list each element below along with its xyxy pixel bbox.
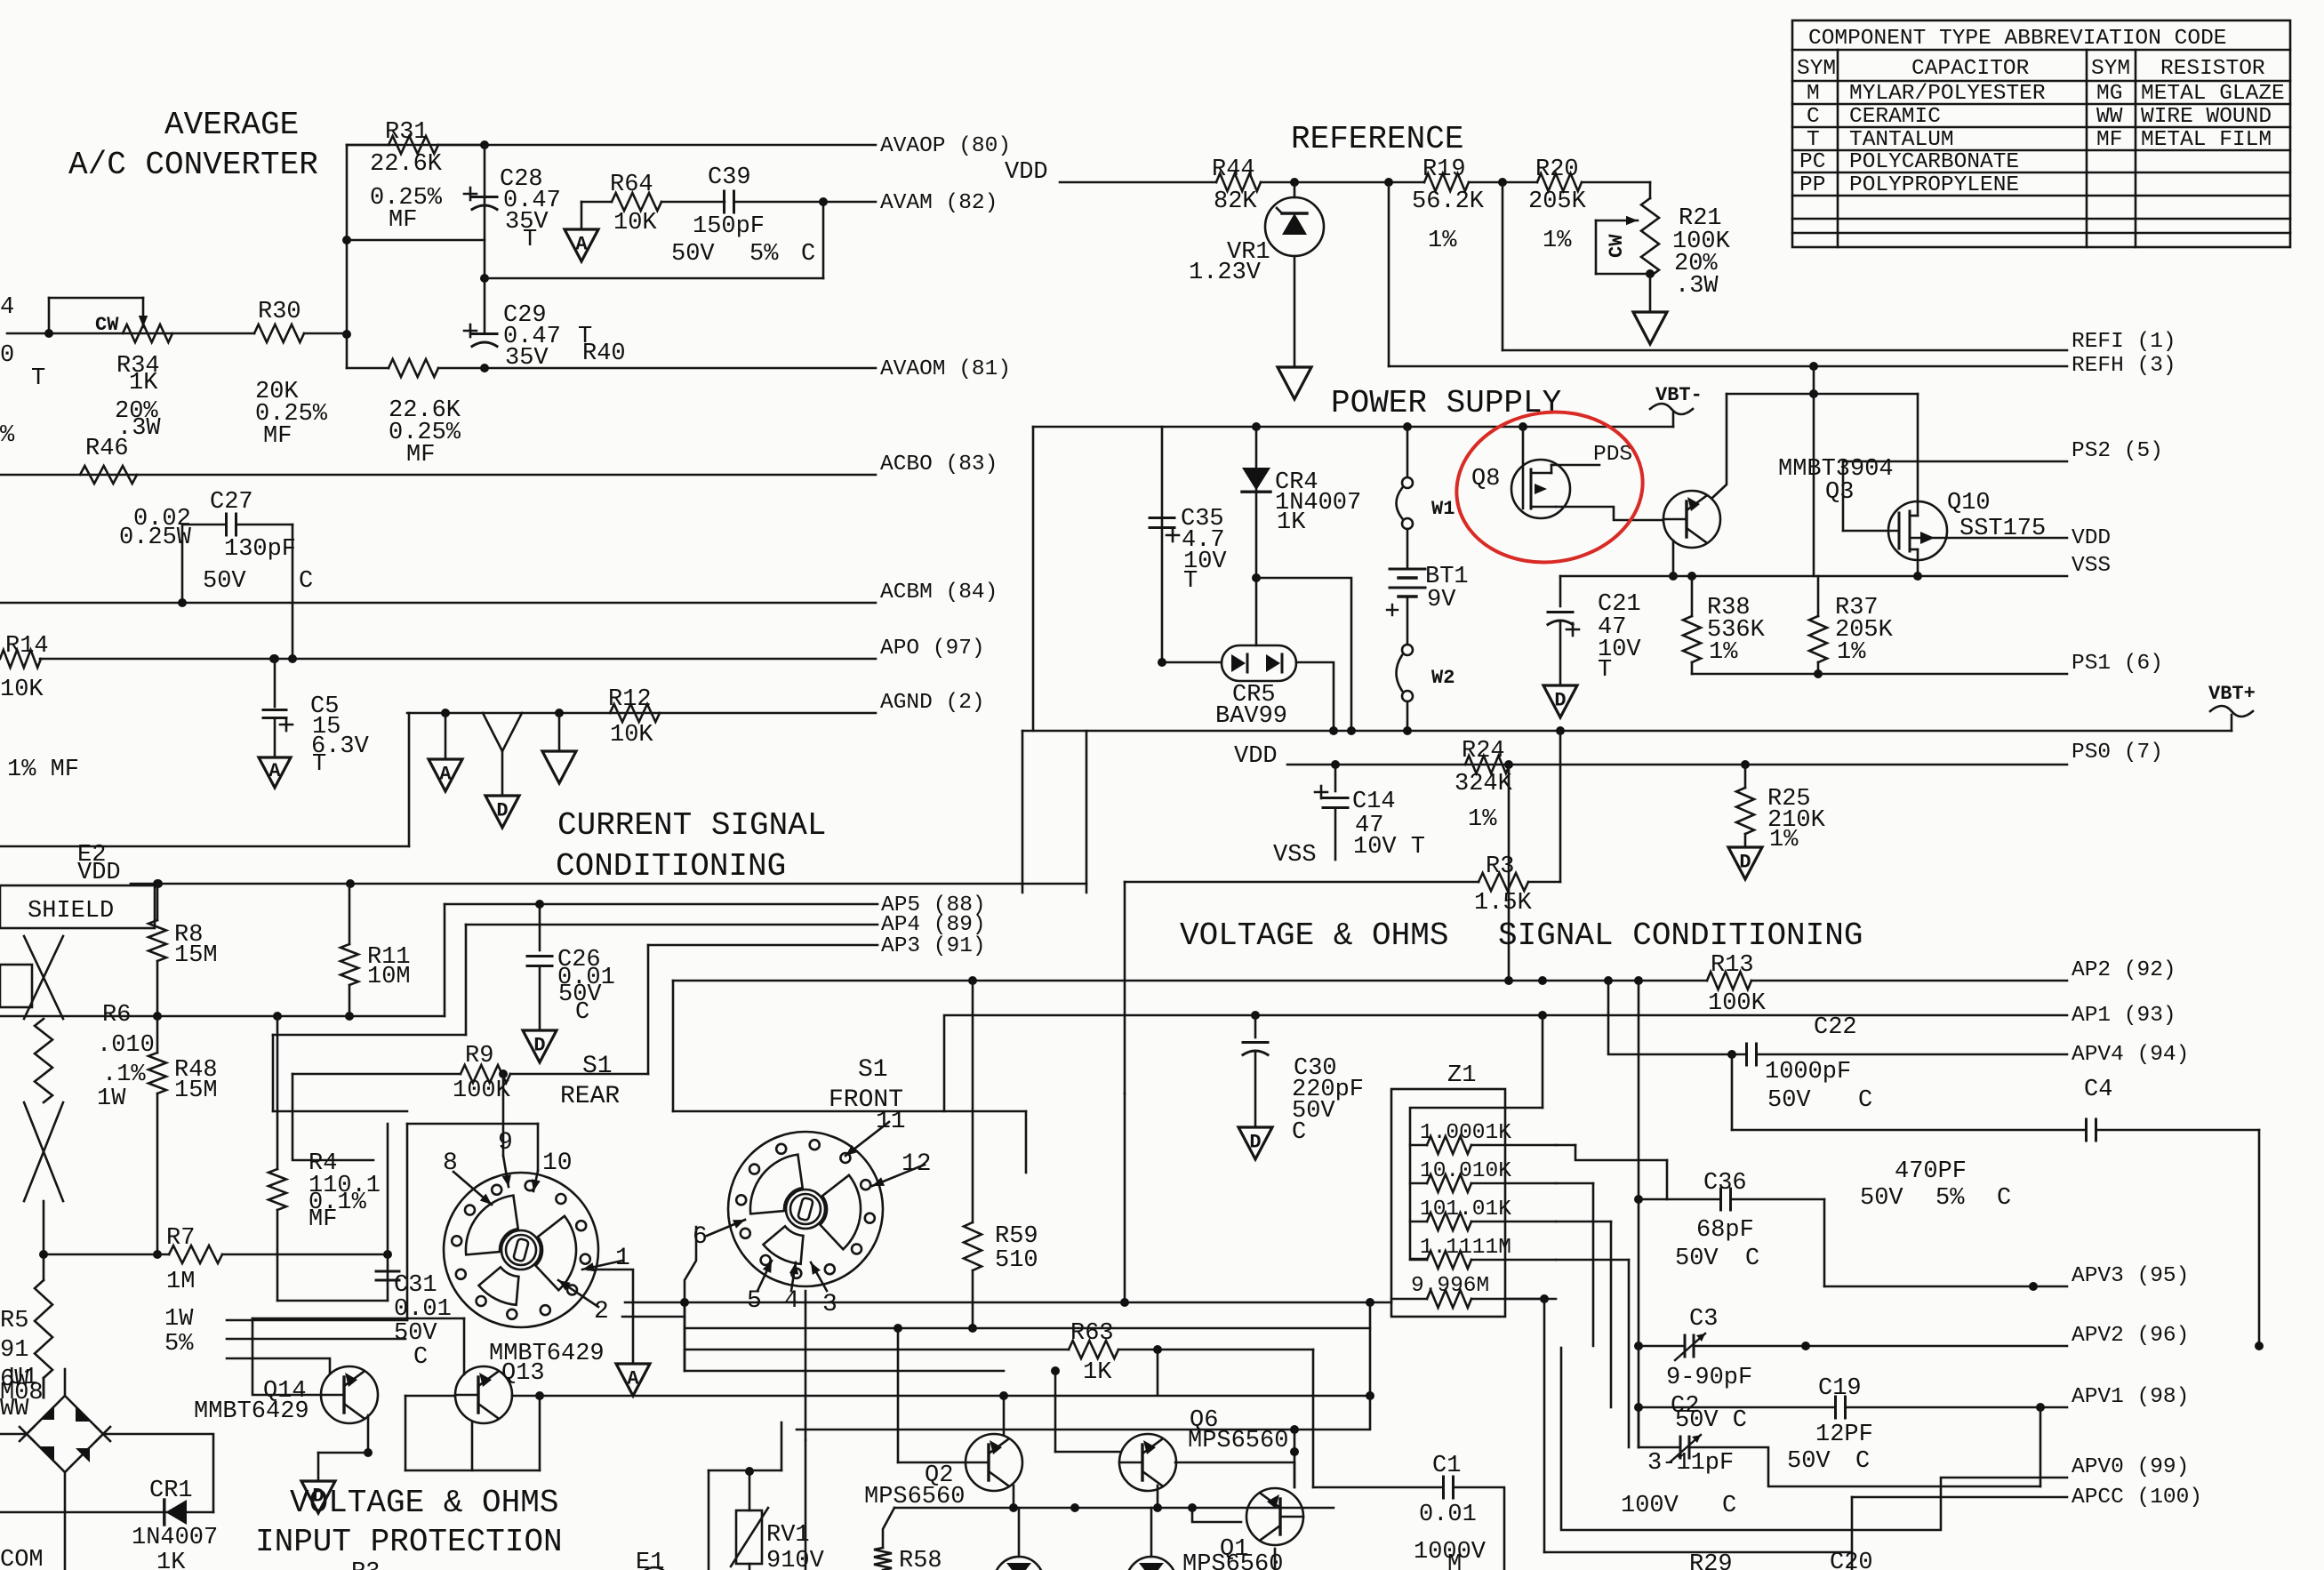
wire APV4 from AP2 bbox=[1608, 981, 1746, 1054]
wire bbox=[1528, 881, 1560, 884]
svg-text:VBT+: VBT+ bbox=[2208, 683, 2256, 705]
wire VDD rail bbox=[131, 883, 1086, 885]
svg-text:APV4 (94): APV4 (94) bbox=[2072, 1043, 2189, 1067]
resistor R34 pot bbox=[123, 324, 172, 342]
wire APCC bbox=[1852, 1496, 2067, 1499]
capacitor C30 bbox=[1243, 1043, 1268, 1055]
wire AP4 riser bbox=[465, 925, 468, 1035]
wire bbox=[539, 966, 541, 1030]
svg-text:R9: R9 bbox=[465, 1043, 493, 1069]
wire C26 drop bbox=[539, 904, 541, 950]
wire bbox=[1638, 1407, 1640, 1447]
junction bbox=[1366, 1391, 1374, 1400]
svg-text:C: C bbox=[413, 1344, 428, 1371]
pointer pin 11 bbox=[845, 1122, 889, 1156]
battery BT1 bbox=[1387, 569, 1425, 615]
svg-text:R46: R46 bbox=[85, 436, 129, 462]
svg-text:R44: R44 bbox=[1212, 156, 1255, 183]
resistor R44 bbox=[1216, 173, 1261, 191]
wire bbox=[1254, 1053, 1257, 1127]
junction bbox=[1538, 1011, 1547, 1020]
wire REFH bbox=[1389, 365, 2067, 368]
wire APV backbone bbox=[1638, 981, 1640, 1447]
wire shunt X2b bbox=[24, 1102, 63, 1201]
junction bbox=[1120, 1298, 1129, 1307]
wire bbox=[581, 201, 612, 204]
terminal E1 bbox=[639, 1567, 669, 1570]
wire R9 right bbox=[510, 1073, 648, 1076]
wire C39 right vertical bbox=[822, 202, 825, 278]
svg-text:1000pF: 1000pF bbox=[1765, 1059, 1851, 1085]
wire C27 box right bbox=[292, 525, 294, 659]
junction bbox=[1331, 760, 1340, 769]
svg-text:1%: 1% bbox=[1468, 806, 1497, 833]
wire box bottom bbox=[347, 239, 485, 242]
junction bbox=[1051, 1366, 1060, 1375]
wire C22 box right bbox=[1731, 1054, 1734, 1130]
svg-text:Z1: Z1 bbox=[1447, 1062, 1476, 1089]
svg-text:50V: 50V bbox=[203, 568, 246, 595]
junction bbox=[345, 1012, 354, 1021]
svg-text:50V: 50V bbox=[1767, 1087, 1811, 1114]
wire bbox=[1505, 1298, 1544, 1301]
svg-text:C14: C14 bbox=[1352, 789, 1396, 815]
svg-text:VDD: VDD bbox=[1234, 743, 1278, 770]
wire bbox=[1639, 1345, 1684, 1348]
junction bbox=[1252, 422, 1261, 431]
junction bbox=[269, 654, 278, 663]
junction bbox=[2029, 1282, 2038, 1291]
wire U1 bottom bbox=[64, 1473, 67, 1570]
svg-text:R3: R3 bbox=[1486, 853, 1514, 880]
wire bbox=[1582, 181, 1650, 184]
svg-text:MF: MF bbox=[406, 442, 435, 469]
junction bbox=[1290, 1447, 1299, 1456]
wire box bottom 2 bbox=[485, 277, 823, 280]
svg-text:3-11pF: 3-11pF bbox=[1647, 1450, 1734, 1477]
resistor R46 bbox=[80, 466, 137, 484]
wire AP2 row bbox=[673, 980, 1707, 982]
rotary switch S1 FRONT bbox=[728, 1132, 883, 1286]
svg-text:11: 11 bbox=[876, 1108, 906, 1135]
wire Q13 bus bbox=[512, 1395, 1370, 1398]
wire AGND bus bbox=[407, 712, 876, 715]
svg-text:ACBO (83): ACBO (83) bbox=[880, 453, 998, 477]
wire bbox=[709, 1470, 781, 1472]
wire bbox=[1410, 1221, 1427, 1223]
red annotation ellipse bbox=[1446, 400, 1652, 574]
junction bbox=[346, 879, 355, 888]
ground A (R64) bbox=[565, 229, 598, 261]
resistor R13 bbox=[1707, 972, 1751, 989]
capacitor C27 bbox=[227, 514, 236, 535]
wire Q1 collector bbox=[1274, 1549, 1277, 1570]
wire pin10 row bbox=[407, 1123, 538, 1125]
capacitor C2 variable bbox=[1671, 1435, 1701, 1462]
wire drop to AP2 bbox=[1508, 765, 1511, 981]
svg-text:.1%: .1% bbox=[102, 1061, 146, 1088]
wire to rail bbox=[1256, 578, 1351, 731]
resistor R24 bbox=[1465, 756, 1510, 773]
wire row A bbox=[277, 1300, 388, 1302]
svg-text:T: T bbox=[312, 751, 326, 778]
junction bbox=[1366, 1298, 1374, 1307]
svg-text:S1: S1 bbox=[582, 1053, 613, 1080]
junction bbox=[2255, 1342, 2264, 1350]
svg-text:1%: 1% bbox=[1428, 228, 1457, 254]
wire bbox=[1639, 1446, 1679, 1449]
wire bbox=[276, 1210, 279, 1301]
capacitor C28 bbox=[464, 188, 497, 210]
zener diode VR1 bbox=[1265, 197, 1324, 256]
resistor R8 bbox=[148, 920, 166, 961]
wire shunt X1a bbox=[24, 936, 63, 1019]
wire bbox=[1391, 1298, 1427, 1301]
svg-text:5%: 5% bbox=[164, 1331, 194, 1358]
svg-text:APCC (100): APCC (100) bbox=[2072, 1486, 2202, 1510]
wire VDD to R44 bbox=[1060, 181, 1216, 184]
svg-text:0.01: 0.01 bbox=[1419, 1502, 1477, 1528]
wire Q3 emitter up bbox=[1712, 394, 1727, 498]
svg-text:2: 2 bbox=[594, 1298, 609, 1326]
junction bbox=[1290, 1425, 1299, 1434]
ground D (C30) bbox=[1238, 1127, 1272, 1159]
wire bbox=[1162, 661, 1222, 664]
wire U1 left bbox=[0, 1433, 27, 1436]
junction bbox=[1634, 1195, 1643, 1204]
wire R3 row bbox=[1125, 881, 1479, 884]
transistor Q14 bbox=[321, 1366, 378, 1423]
svg-text:5%: 5% bbox=[1935, 1185, 1965, 1212]
resistor R20 bbox=[1537, 173, 1582, 191]
svg-text:R24: R24 bbox=[1462, 738, 1505, 765]
junction bbox=[1009, 1503, 1018, 1512]
wire bbox=[1556, 1221, 1611, 1223]
junction bbox=[555, 709, 564, 717]
wire AP3 bbox=[648, 944, 878, 947]
wire Z1 inner bbox=[1410, 1108, 1505, 1259]
wire bbox=[1054, 1371, 1057, 1452]
junction bbox=[364, 1448, 373, 1457]
wire riser A bbox=[387, 1124, 389, 1301]
junction bbox=[1741, 760, 1750, 769]
svg-text:CW: CW bbox=[95, 314, 119, 336]
wire bbox=[1751, 980, 2067, 982]
capacitor C22 bbox=[1747, 1044, 1757, 1065]
wire bbox=[1454, 1487, 1504, 1570]
wire bbox=[438, 144, 485, 147]
svg-text:INPUT PROTECTION: INPUT PROTECTION bbox=[255, 1524, 563, 1560]
svg-text:REFI (1): REFI (1) bbox=[2072, 330, 2176, 354]
protection diode D1 bbox=[994, 1557, 1044, 1570]
svg-text:APV1 (98): APV1 (98) bbox=[2072, 1385, 2189, 1409]
junction bbox=[178, 598, 187, 607]
dual diode CR5 BAV99 bbox=[1222, 645, 1296, 681]
protection diode D2 bbox=[1126, 1557, 1176, 1570]
wire bbox=[1294, 256, 1296, 367]
svg-text:4: 4 bbox=[0, 294, 14, 321]
wire shunt X1b bbox=[24, 936, 63, 1019]
junction bbox=[968, 1324, 977, 1333]
wire bbox=[156, 1016, 159, 1053]
svg-text:1W: 1W bbox=[164, 1306, 194, 1333]
wire bus 1483 bbox=[252, 1318, 464, 1320]
svg-text:C2: C2 bbox=[1671, 1393, 1699, 1420]
wire bus 1494 bbox=[685, 1327, 1370, 1330]
svg-text:CONDITIONING: CONDITIONING bbox=[556, 848, 786, 885]
squiggle VBT- bbox=[1650, 404, 1693, 414]
wire y1143 bus bbox=[0, 1015, 445, 1018]
transistor Q1 bbox=[1246, 1488, 1303, 1545]
junction bbox=[894, 1324, 902, 1333]
svg-text:3: 3 bbox=[822, 1291, 837, 1318]
pointer pin 6 bbox=[707, 1220, 745, 1236]
svg-text:SYM: SYM bbox=[2091, 57, 2130, 81]
wire CR4 vertical bbox=[1255, 427, 1258, 645]
wire AVAOM bus bbox=[485, 367, 876, 370]
junction bbox=[480, 140, 489, 149]
MOSFET Q10 bbox=[1843, 501, 1947, 560]
svg-text:22.6K: 22.6K bbox=[370, 151, 443, 178]
wire bbox=[1406, 597, 1409, 645]
wire C27 right bbox=[236, 524, 293, 526]
wire bbox=[222, 1254, 388, 1256]
resistor R31 bbox=[389, 136, 438, 154]
svg-text:50V: 50V bbox=[671, 241, 715, 268]
wire bbox=[1823, 1199, 1826, 1286]
svg-text:9.996M: 9.996M bbox=[1411, 1274, 1489, 1298]
svg-text:ACBM (84): ACBM (84) bbox=[880, 581, 998, 605]
svg-text:POLYPROPYLENE: POLYPROPYLENE bbox=[1849, 173, 2019, 197]
wire bbox=[1556, 1144, 1575, 1147]
wire bbox=[708, 1470, 710, 1570]
svg-text:CERAMIC: CERAMIC bbox=[1849, 105, 1941, 129]
wire pin12 feed bbox=[1025, 1111, 1028, 1173]
svg-text:R3: R3 bbox=[351, 1559, 380, 1570]
wire APO bus bbox=[40, 658, 876, 661]
wire bbox=[1596, 273, 1650, 276]
pointer pin 3 bbox=[811, 1262, 827, 1291]
wire bbox=[317, 1453, 320, 1481]
junction bbox=[480, 364, 489, 372]
wire Z1 row2 drop bbox=[1592, 1183, 1595, 1346]
wire bbox=[1505, 1107, 1543, 1109]
wire bbox=[1575, 1145, 1667, 1160]
svg-text:T: T bbox=[1807, 128, 1820, 152]
wire bbox=[1261, 181, 1424, 184]
svg-text:A: A bbox=[268, 760, 281, 782]
svg-text:APV3 (95): APV3 (95) bbox=[2072, 1264, 2189, 1288]
pointer pin 9 bbox=[502, 1156, 511, 1187]
wire APV2 bbox=[1695, 1345, 2067, 1348]
wire C36 row bbox=[1639, 1198, 1720, 1201]
svg-text:1%: 1% bbox=[1837, 639, 1866, 666]
wire Z1 row4 drop bbox=[1628, 1260, 1631, 1447]
svg-text:50V: 50V bbox=[1675, 1246, 1719, 1272]
resistor R3 bbox=[1479, 873, 1528, 891]
svg-text:R31: R31 bbox=[385, 119, 429, 146]
wire bbox=[347, 144, 389, 147]
wire R59 riser bbox=[972, 981, 974, 1222]
svg-text:1N4007: 1N4007 bbox=[132, 1525, 218, 1551]
resistor R19 bbox=[1424, 173, 1469, 191]
svg-text:1K: 1K bbox=[1083, 1359, 1112, 1386]
wire bbox=[1406, 529, 1409, 567]
junction bbox=[1251, 1011, 1260, 1020]
junction bbox=[1153, 1503, 1162, 1512]
wire bus 1506 bbox=[227, 1338, 405, 1341]
resistor Z1 101.01K bbox=[1427, 1213, 1471, 1230]
svg-text:910V: 910V bbox=[766, 1548, 825, 1570]
svg-text:C: C bbox=[299, 568, 313, 595]
wire pin1 to ground bbox=[588, 1270, 633, 1364]
svg-text:10M: 10M bbox=[367, 964, 411, 990]
pointer pin 1 bbox=[582, 1261, 622, 1271]
svg-text:MMBT6429: MMBT6429 bbox=[194, 1398, 309, 1425]
capacitor C29 bbox=[464, 324, 497, 347]
wire R31 left vertical bbox=[346, 145, 349, 368]
svg-text:10K: 10K bbox=[613, 210, 657, 236]
wire drop bbox=[1086, 731, 1088, 893]
svg-text:R12: R12 bbox=[608, 686, 652, 713]
svg-text:R13: R13 bbox=[1711, 952, 1754, 979]
wire bus 1518 bbox=[685, 1349, 1069, 1351]
wire bbox=[272, 1035, 275, 1111]
svg-text:R14: R14 bbox=[5, 633, 49, 660]
wire pin4 long drop bbox=[805, 1440, 807, 1570]
svg-text:REAR: REAR bbox=[560, 1083, 620, 1110]
svg-text:PS2 (5): PS2 (5) bbox=[2072, 439, 2163, 463]
wire to pin8 bbox=[293, 1074, 373, 1160]
svg-text:5: 5 bbox=[747, 1287, 762, 1315]
wire C5 drop bbox=[274, 659, 276, 707]
svg-text:AGND (2): AGND (2) bbox=[880, 691, 985, 715]
jumper W1 bbox=[1397, 477, 1414, 529]
junction bbox=[1384, 178, 1393, 187]
junction bbox=[999, 1391, 1008, 1400]
svg-text:BAV99: BAV99 bbox=[1215, 703, 1287, 730]
svg-text:VDD: VDD bbox=[2072, 526, 2111, 550]
svg-text:APV0 (99): APV0 (99) bbox=[2072, 1455, 2189, 1479]
wire bbox=[1410, 1259, 1427, 1262]
wire bbox=[1666, 1160, 1669, 1199]
svg-text:COMPONENT TYPE ABBREVIATION CO: COMPONENT TYPE ABBREVIATION CODE bbox=[1808, 27, 2226, 51]
svg-text:SHIELD: SHIELD bbox=[28, 898, 114, 925]
svg-text:C1: C1 bbox=[1432, 1453, 1461, 1479]
svg-text:56.2K: 56.2K bbox=[1412, 188, 1485, 215]
ground A (current) bbox=[429, 759, 462, 791]
wire bbox=[1649, 182, 1652, 198]
svg-text:C22: C22 bbox=[1814, 1014, 1857, 1041]
junction bbox=[1403, 422, 1412, 431]
svg-text:MF: MF bbox=[263, 423, 292, 450]
wire bbox=[1150, 1508, 1153, 1557]
wire VSS bus bbox=[1560, 575, 2067, 578]
svg-text:470PF: 470PF bbox=[1895, 1158, 1967, 1185]
resistor R30 bbox=[254, 324, 304, 342]
wire bbox=[749, 1471, 751, 1510]
svg-text:AVERAGE: AVERAGE bbox=[164, 107, 299, 143]
wire Q13 emitter riser bbox=[463, 1318, 466, 1374]
junction bbox=[1634, 1403, 1643, 1412]
junction bbox=[1329, 726, 1338, 735]
capacitor C19 bbox=[1836, 1397, 1846, 1418]
svg-text:12PF: 12PF bbox=[1815, 1422, 1873, 1448]
pointer R21 wiper bbox=[1596, 216, 1638, 225]
svg-text:AP2 (92): AP2 (92) bbox=[2072, 958, 2176, 982]
pointer pin 12 bbox=[872, 1165, 925, 1186]
wire PDS stub bbox=[1551, 464, 1599, 467]
svg-text:REFERENCE: REFERENCE bbox=[1291, 121, 1463, 157]
svg-text:1.23V: 1.23V bbox=[1189, 260, 1262, 286]
svg-text:100V: 100V bbox=[1621, 1493, 1679, 1519]
junction bbox=[1158, 658, 1166, 667]
wire drop to Z1 area bbox=[1124, 882, 1126, 1093]
svg-text:R64: R64 bbox=[610, 172, 653, 198]
svg-text:C: C bbox=[1855, 1448, 1870, 1475]
svg-text:PDS: PDS bbox=[1593, 443, 1632, 467]
wire Y left bbox=[483, 713, 502, 796]
wire bbox=[734, 201, 823, 204]
wire APV3 bbox=[1824, 1286, 2067, 1288]
wire riser bbox=[684, 1302, 686, 1371]
transistor Q2 bbox=[966, 1434, 1022, 1491]
svg-text:510: 510 bbox=[995, 1247, 1038, 1274]
svg-text:5%: 5% bbox=[749, 241, 779, 268]
wire VR1 drop bbox=[1294, 182, 1296, 197]
svg-text:D: D bbox=[1249, 1131, 1261, 1153]
capacitor C3 variable bbox=[1675, 1334, 1705, 1360]
svg-text:100K: 100K bbox=[1708, 990, 1767, 1017]
svg-text:AVAM (82): AVAM (82) bbox=[880, 191, 998, 215]
svg-text:VOLTAGE & OHMS: VOLTAGE & OHMS bbox=[290, 1485, 558, 1521]
resistor Z1 9.996M bbox=[1427, 1290, 1471, 1308]
wire riser B bbox=[406, 1124, 409, 1320]
svg-text:VOLTAGE & OHMS: VOLTAGE & OHMS bbox=[1180, 917, 1448, 954]
svg-text:1K: 1K bbox=[129, 370, 158, 397]
wire pot bracket left bbox=[48, 298, 51, 333]
wire bbox=[781, 1422, 783, 1470]
wire COM bus bbox=[0, 1511, 213, 1514]
wire AP1 row bbox=[944, 1015, 2067, 1111]
svg-text:AP3 (91): AP3 (91) bbox=[881, 934, 986, 958]
wire Q13 base bbox=[405, 1395, 455, 1398]
svg-text:PC: PC bbox=[1799, 150, 1825, 174]
svg-text:T: T bbox=[1183, 568, 1198, 595]
svg-text:0.25W: 0.25W bbox=[119, 525, 192, 551]
svg-text:C19: C19 bbox=[1818, 1375, 1862, 1402]
svg-text:W2: W2 bbox=[1431, 667, 1455, 689]
wire Q1 base bbox=[1192, 1508, 1241, 1522]
svg-text:R29: R29 bbox=[1689, 1551, 1733, 1570]
capacitor C36 bbox=[1721, 1189, 1731, 1210]
svg-text:Q8: Q8 bbox=[1471, 466, 1500, 493]
pointer R34 wiper bbox=[139, 298, 148, 327]
junction bbox=[342, 236, 351, 244]
svg-text:AVAOP (80): AVAOP (80) bbox=[880, 134, 1011, 158]
wire C4 row bbox=[1732, 1129, 2086, 1132]
junction bbox=[535, 1391, 544, 1400]
junction bbox=[1809, 362, 1818, 371]
ground (R21) bbox=[1633, 312, 1667, 344]
wire bus 1542 bbox=[685, 1370, 1004, 1373]
svg-text:METAL GLAZE: METAL GLAZE bbox=[2141, 82, 2285, 106]
ground A (S1 pin1) bbox=[616, 1364, 650, 1396]
wire bbox=[1294, 1462, 1296, 1487]
ground D (R25) bbox=[1728, 847, 1762, 879]
junction bbox=[1290, 178, 1299, 187]
wire R9 left bbox=[293, 1073, 461, 1076]
